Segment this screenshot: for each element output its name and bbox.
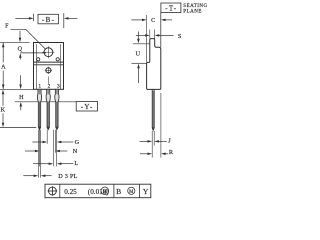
svg-text:Q: Q — [18, 45, 23, 52]
frame separator 2 — [113, 184, 115, 198]
extension line tab back face — [154, 30, 156, 39]
dimension Q lower arrow — [19, 53, 22, 58]
front view ledge line lower — [34, 64, 64, 66]
extension line B right — [63, 13, 65, 28]
dimension U — [137, 32, 139, 40]
center hole vertical centerline — [47, 67, 49, 74]
datum box -B- — [38, 14, 59, 23]
dimension N — [25, 150, 35, 152]
svg-text:-T-: -T- — [165, 5, 177, 13]
dimension K — [2, 90, 5, 95]
lead shoulder bottom reference line to datum Y — [15, 101, 76, 103]
leader line F to mounting hole — [11, 29, 46, 49]
feature control frame box — [45, 184, 151, 198]
svg-text:L: L — [74, 160, 78, 167]
U upper reference line — [133, 43, 150, 45]
dimension G — [32, 141, 42, 143]
front view ledge line upper — [34, 61, 64, 63]
extension line lead front face — [151, 131, 153, 158]
dimension C — [131, 19, 142, 21]
lead 2 front view — [46, 89, 50, 129]
dimension J — [140, 140, 148, 142]
svg-text:M: M — [129, 190, 134, 195]
side view lead — [152, 89, 154, 130]
small hole right — [56, 58, 59, 61]
extension line lead1 centerline — [39, 130, 41, 167]
svg-text:G: G — [75, 139, 80, 146]
svg-text:0.25: 0.25 — [64, 188, 77, 196]
svg-text:C: C — [151, 17, 155, 24]
extension line B left — [33, 14, 35, 21]
svg-text:B: B — [116, 187, 121, 196]
extension line L left — [52, 130, 54, 167]
dimension L — [33, 163, 49, 165]
svg-text:S: S — [178, 33, 182, 40]
datum box -T- — [161, 3, 181, 13]
extension line body bottom edge left — [0, 88, 34, 90]
svg-text:1: 1 — [38, 83, 41, 89]
body inner chamfer line right — [59, 44, 61, 89]
extension line tab front face — [149, 30, 151, 39]
modifier circle M 1 — [101, 187, 109, 195]
svg-text:3: 3 — [57, 83, 60, 89]
mounting hole — [44, 48, 53, 57]
frame separator 3 — [138, 184, 140, 198]
dimension Q — [19, 31, 21, 38]
extension line lead1 left edge — [37, 130, 39, 178]
svg-text:-B-: -B- — [42, 16, 55, 24]
svg-text:K: K — [1, 107, 6, 114]
small hole left — [37, 58, 40, 61]
dimension H — [20, 75, 22, 84]
svg-text:M: M — [103, 190, 108, 195]
svg-text:-Y-: -Y- — [81, 103, 94, 111]
svg-text:J: J — [168, 138, 171, 145]
svg-text:SEATING: SEATING — [183, 4, 207, 9]
extension line lead1 right edge — [40, 130, 42, 178]
svg-text:Y: Y — [143, 187, 149, 196]
svg-text:R: R — [169, 149, 174, 156]
extension line lead back face — [153, 131, 155, 146]
extension line lead3 centerline — [56, 130, 58, 167]
extension line body top edge left — [0, 41, 30, 43]
U lower reference line — [132, 62, 147, 64]
modifier circle M 2 — [128, 187, 135, 194]
datum box -Y- — [76, 102, 97, 112]
dimension U lower arrow — [137, 64, 140, 69]
extension line lead tips / seating — [0, 127, 36, 129]
lead 3 front view — [55, 89, 59, 129]
mounting hole vertical centerline — [47, 46, 49, 58]
extension line lead2 left edge — [46, 130, 48, 144]
svg-text:A: A — [1, 64, 6, 71]
svg-text:D 3 PL: D 3 PL — [58, 173, 77, 180]
body inner chamfer line left — [36, 44, 38, 89]
hole centerline extension for Q — [20, 52, 46, 54]
svg-text:U: U — [136, 50, 141, 57]
dimension B arrows — [15, 17, 29, 19]
lead 1 front view — [37, 89, 41, 129]
mounting hole horizontal centerline — [42, 51, 54, 53]
dimension A — [2, 43, 4, 63]
svg-text:PLANE: PLANE — [183, 10, 202, 15]
extension line body back face lower — [160, 93, 162, 158]
package vertical centerline dash — [47, 77, 49, 84]
side view package profile — [147, 39, 161, 90]
dimension S — [136, 34, 146, 36]
svg-text:2: 2 — [48, 83, 51, 89]
extension line lead3 left edge — [54, 130, 56, 153]
svg-text:N: N — [73, 148, 78, 155]
dimension R — [140, 153, 148, 155]
true position symbol — [49, 187, 57, 195]
frame separator 1 — [59, 184, 61, 198]
front view package body outline — [34, 43, 64, 90]
center hole horizontal centerline — [45, 69, 52, 71]
svg-text:H: H — [19, 94, 24, 101]
dimension D 3 PL — [23, 175, 33, 177]
center hole — [46, 68, 51, 73]
datum T seating plane line (body back face extension) — [160, 13, 162, 48]
extension line body front face — [146, 15, 148, 63]
svg-text:F: F — [5, 22, 9, 29]
